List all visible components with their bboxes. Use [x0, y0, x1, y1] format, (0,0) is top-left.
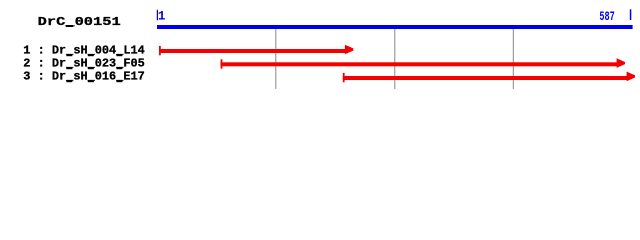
- row 2 arrow line: [221, 62, 618, 66]
- row 3 arrow start bar: [343, 73, 345, 82]
- row 1 arrowhead: [345, 45, 353, 55]
- gridline 3: [513, 29, 514, 89]
- row 2 arrowhead: [617, 58, 625, 68]
- svg-text:DrC_00151: DrC_00151: [38, 15, 121, 29]
- svg-text:587: 587: [599, 9, 614, 24]
- gridline 1: [275, 29, 276, 89]
- ruler left tick: [157, 10, 158, 20]
- gridline 2: [394, 29, 395, 89]
- svg-text:3 : Dr_sH_016_E17: 3 : Dr_sH_016_E17: [23, 70, 145, 84]
- row 2 arrow start bar: [221, 59, 223, 68]
- row 3 arrow line: [343, 76, 628, 80]
- svg-text:1: 1: [158, 10, 166, 24]
- row 1 arrow line: [159, 49, 347, 53]
- row 1 arrow start bar: [159, 46, 161, 55]
- ruler bar: [157, 25, 633, 29]
- ruler right tick: [630, 9, 632, 20]
- row 3 arrowhead: [627, 72, 635, 82]
- svg-text:1 : Dr_sH_004_L14: 1 : Dr_sH_004_L14: [23, 44, 145, 58]
- svg-text:2 : Dr_sH_023_F05: 2 : Dr_sH_023_F05: [23, 57, 145, 71]
